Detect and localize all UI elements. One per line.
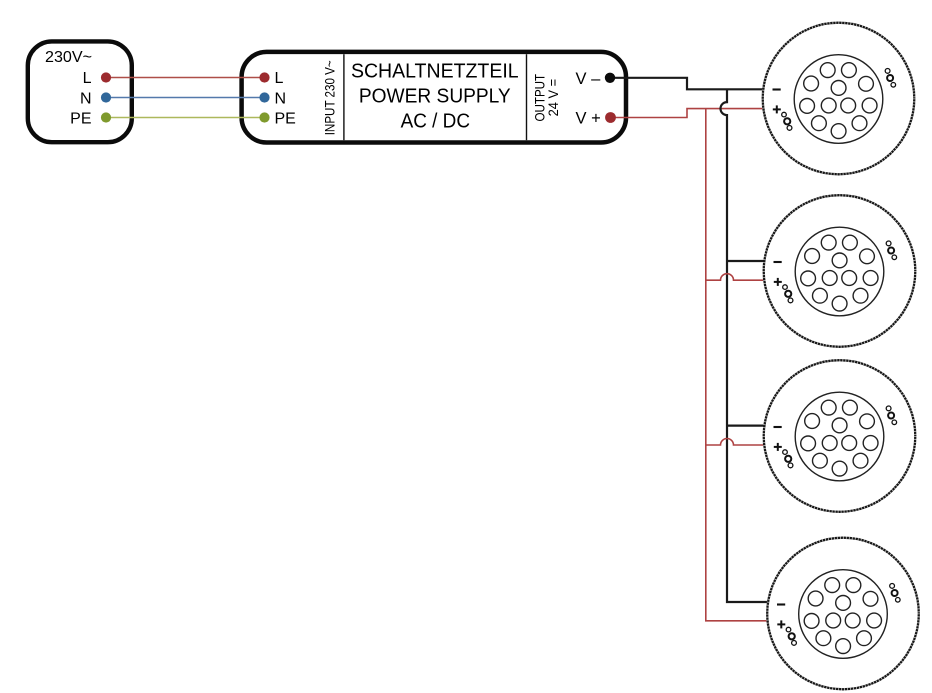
divider input section (343, 54, 345, 140)
input terminal dot L (259, 72, 269, 82)
svg-text:PE: PE (70, 110, 91, 127)
wire L (mains live) (106, 77, 265, 79)
svg-text:L: L (275, 70, 284, 87)
svg-text:L: L (83, 70, 92, 87)
luminaire E1 (763, 23, 915, 175)
luminaire E3 (764, 360, 916, 512)
terminal dot V plus (605, 112, 616, 123)
wire V minus to lamp 1 (610, 78, 763, 90)
svg-text:INPUT 230 V~: INPUT 230 V~ (321, 60, 337, 135)
terminal dot V minus (605, 73, 615, 83)
wire N (mains neutral) (106, 97, 265, 99)
svg-text:24 V =: 24 V = (545, 79, 561, 117)
svg-text:AC / DC: AC / DC (401, 111, 470, 133)
svg-text:PE: PE (275, 110, 296, 127)
svg-text:V –: V – (576, 70, 602, 88)
svg-text:POWER SUPPLY: POWER SUPPLY (359, 85, 511, 107)
power supply unit box (242, 52, 626, 143)
divider output section (526, 54, 528, 140)
terminal dot N (source) (101, 92, 111, 102)
terminal dot PE (source) (101, 112, 111, 122)
mains source box 230V (28, 41, 132, 142)
luminaire E2 (764, 195, 916, 347)
wire PE (protective earth) (106, 117, 265, 119)
svg-text:V +: V + (576, 110, 601, 128)
luminaire E4 (767, 538, 919, 690)
svg-text:N: N (275, 90, 287, 107)
svg-text:SCHALTNETZTEIL: SCHALTNETZTEIL (351, 61, 519, 83)
negative bus wire with hop over V plus wire (721, 89, 769, 602)
positive bus wire (706, 109, 768, 621)
svg-text:N: N (80, 90, 92, 107)
input terminal dot PE (259, 112, 269, 122)
positive branch to lamp 3 with hop (706, 439, 765, 446)
negative branch to lamp 3 (727, 425, 764, 427)
wire V plus to lamp 1 (611, 109, 764, 118)
positive branch to lamp 2 with hop (706, 274, 765, 281)
input terminal dot N (259, 92, 269, 102)
negative branch to lamp 2 (727, 260, 764, 262)
svg-text:230V~: 230V~ (45, 49, 92, 66)
terminal dot L (source) (101, 72, 111, 82)
